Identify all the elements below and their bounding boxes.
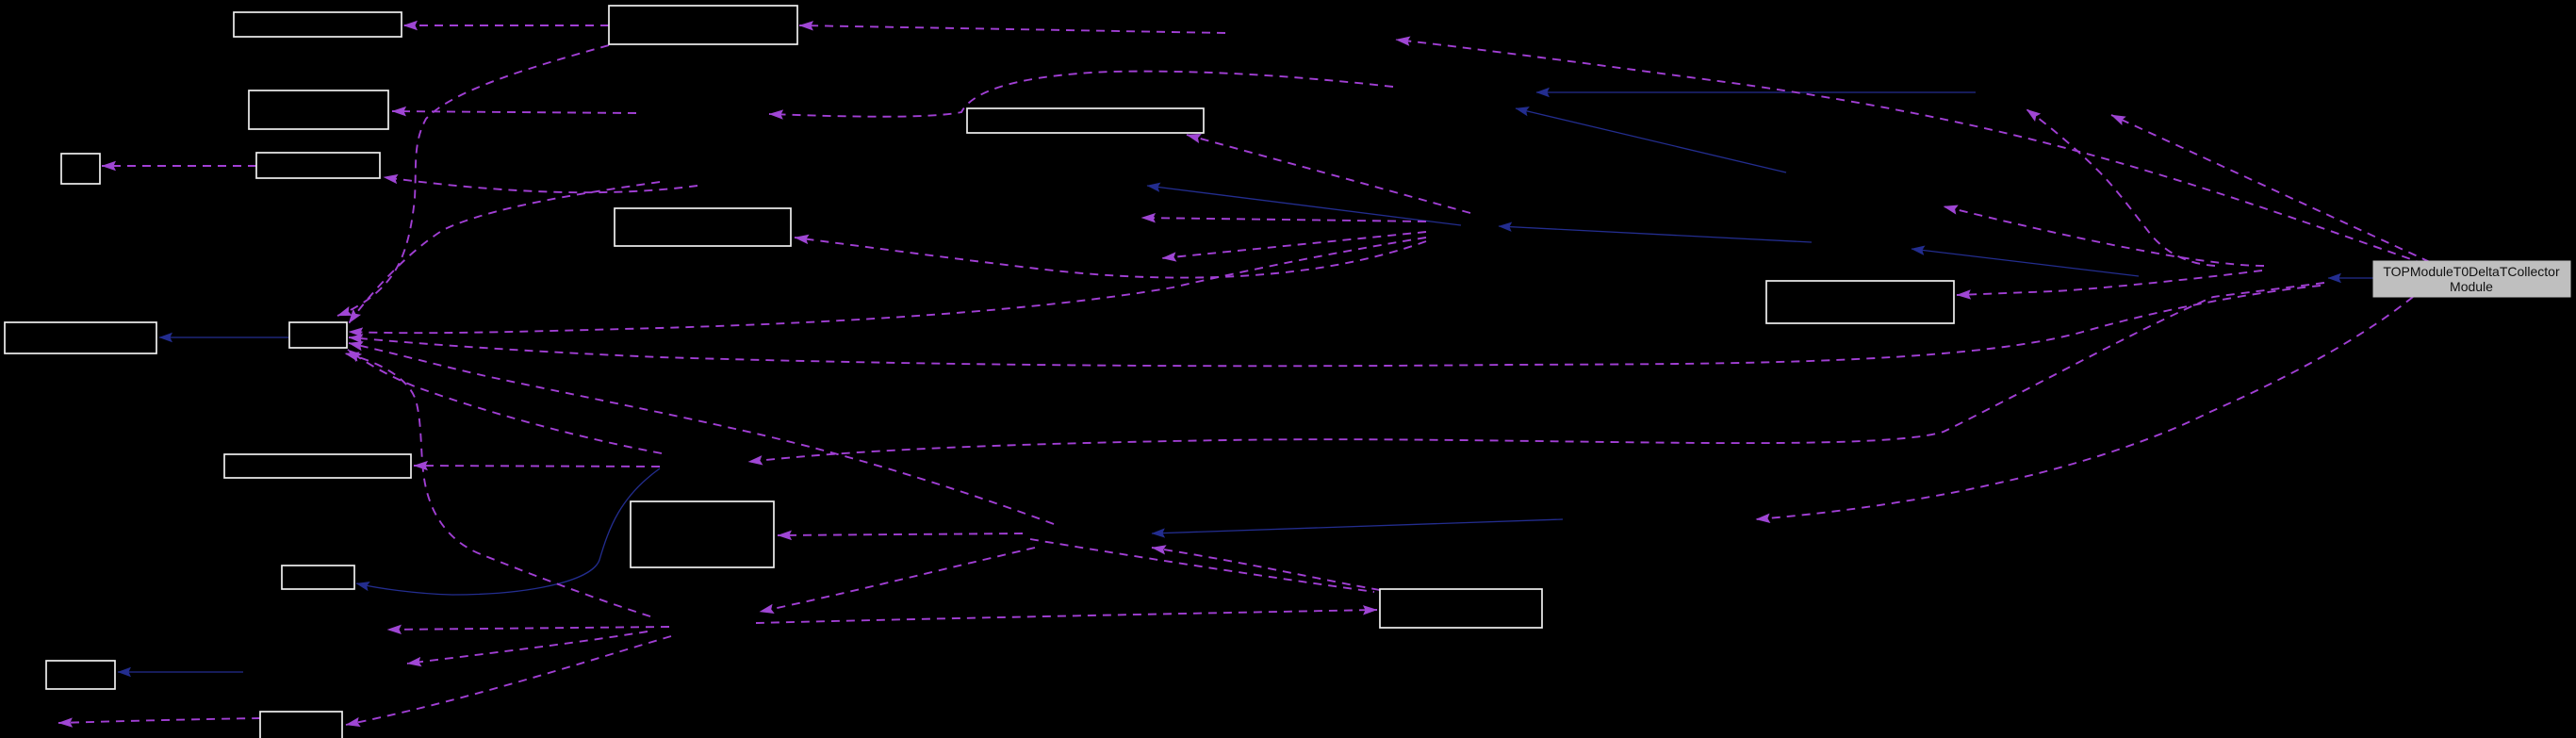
svg-text:Module: Module <box>2450 279 2493 294</box>
svg-text:TOPModuleT0DeltaTCollector: TOPModuleT0DeltaTCollector <box>2383 264 2560 279</box>
